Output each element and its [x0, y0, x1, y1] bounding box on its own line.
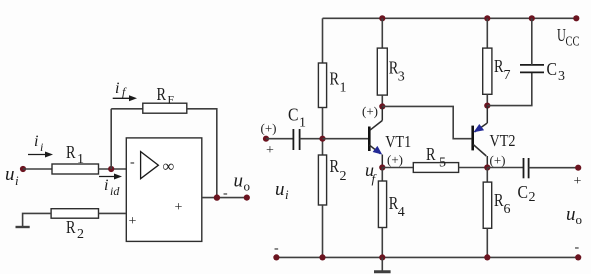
label C_2 — [518, 182, 536, 205]
svg-text:u: u — [234, 171, 244, 192]
svg-text:R: R — [494, 190, 504, 210]
wire top supply rail — [323, 17, 577, 19]
svg-text:u: u — [566, 204, 576, 225]
capacitor C3 — [520, 65, 544, 73]
svg-text:U: U — [557, 25, 566, 45]
node bottom at R4 — [379, 254, 385, 260]
svg-text:-: - — [223, 186, 228, 201]
label C_1 — [288, 105, 306, 131]
wire node to VT1 base — [323, 138, 369, 140]
svg-text:(+): (+) — [362, 104, 378, 119]
svg-text:1: 1 — [77, 152, 84, 167]
resistor R4 — [378, 168, 386, 258]
resistor R2 — [318, 155, 326, 205]
wire R2 to op-amp plus input — [99, 212, 127, 214]
resistor RF — [143, 103, 187, 113]
wire feedback vertical — [110, 109, 112, 169]
svg-text:4: 4 — [398, 205, 405, 220]
current arrow i_i — [28, 152, 53, 158]
label i_i — [34, 133, 43, 154]
label u_i — [275, 179, 289, 202]
svg-text:2: 2 — [340, 169, 347, 184]
node uo output terminal — [244, 195, 250, 201]
svg-text:(+): (+) — [490, 153, 506, 168]
wire rail down to R1 — [322, 18, 324, 63]
svg-text:i: i — [40, 140, 43, 154]
svg-text:7: 7 — [504, 68, 511, 83]
resistor R7 — [483, 48, 492, 94]
wire R2 to ground — [23, 213, 51, 227]
svg-text:CC: CC — [566, 35, 580, 50]
wire ui to R1 — [23, 168, 52, 170]
label i_id — [104, 177, 120, 198]
resistor R1 — [52, 164, 99, 174]
svg-text:C: C — [547, 59, 558, 79]
wire input to C1 — [266, 138, 293, 140]
current arrow i_id — [99, 174, 122, 180]
resistor R6 — [483, 168, 492, 258]
label R6 — [494, 190, 511, 217]
node rail right end — [573, 15, 579, 21]
wire C3 to rail — [531, 18, 533, 65]
label C_3 — [547, 59, 566, 84]
capacitor C1 — [293, 129, 299, 150]
wire R1 to input node — [322, 108, 324, 156]
wire bottom rail — [276, 256, 578, 258]
node bottom at R6 — [484, 254, 490, 260]
label R2 — [330, 156, 347, 184]
svg-text:+: + — [574, 174, 582, 189]
svg-text:2: 2 — [77, 227, 84, 242]
wire VT1 collector to VT2 base — [382, 106, 471, 138]
svg-text:1: 1 — [340, 81, 347, 96]
op-amp triangle symbol — [141, 152, 159, 179]
label u_f — [365, 160, 378, 186]
wire R1 to op-amp inverting input — [99, 168, 127, 170]
svg-text:+: + — [266, 143, 274, 158]
svg-text:i: i — [15, 173, 19, 188]
svg-text:R: R — [426, 144, 436, 164]
svg-text:-: - — [130, 155, 135, 170]
node A summing junction — [108, 166, 114, 172]
svg-text:3: 3 — [558, 69, 565, 84]
node bottom right terminal — [575, 254, 581, 260]
label R7 — [494, 56, 511, 83]
node VT1 collector — [379, 103, 385, 109]
node VT2 collector output — [484, 164, 490, 170]
svg-text:R: R — [330, 69, 340, 89]
transistor VT2 — [473, 106, 488, 168]
svg-text:R: R — [66, 142, 76, 162]
svg-text:R: R — [66, 217, 76, 237]
svg-text:∞: ∞ — [163, 157, 175, 176]
node feedback junction — [214, 194, 220, 200]
resistor R2 — [51, 209, 98, 219]
label R_F — [157, 84, 175, 107]
node base divider junction — [319, 136, 325, 142]
svg-text:R: R — [389, 193, 399, 213]
node uo output terminal — [575, 165, 581, 171]
label R1 — [330, 69, 347, 96]
wire u_f to R5 — [382, 167, 413, 169]
op-amp U1 body — [126, 138, 202, 242]
svg-text:(+): (+) — [387, 152, 403, 167]
svg-text:6: 6 — [504, 202, 511, 217]
svg-text:+: + — [175, 200, 183, 215]
svg-text:o: o — [576, 212, 583, 227]
svg-text:C: C — [518, 182, 529, 202]
wire C2 to output terminal — [529, 167, 579, 169]
node rail at C3 — [529, 15, 535, 21]
node bottom at R2 — [319, 254, 325, 260]
transistor VT1 — [369, 106, 382, 167]
svg-text:u: u — [275, 179, 285, 200]
node rail at R7 — [484, 15, 490, 21]
svg-text:R: R — [330, 156, 340, 176]
label i_f — [115, 80, 127, 99]
svg-text:R: R — [494, 56, 504, 76]
svg-text:VT1: VT1 — [385, 132, 411, 151]
resistor R3 — [377, 48, 387, 95]
wire RF to output node — [187, 109, 217, 198]
wire R2 to bottom rail — [322, 205, 324, 257]
label U_CC — [557, 25, 580, 50]
svg-text:o: o — [244, 179, 251, 194]
label u_i — [5, 164, 19, 188]
resistor R1 — [318, 63, 326, 108]
label R1 — [66, 142, 84, 167]
label R3 — [389, 58, 405, 85]
svg-text:2: 2 — [529, 190, 536, 205]
wire node A up to RF — [111, 108, 143, 110]
svg-text:i: i — [104, 177, 108, 194]
svg-text:VT2: VT2 — [490, 131, 516, 150]
svg-text:id: id — [110, 184, 120, 198]
node rail at R3 — [379, 15, 385, 21]
resistor R5 — [413, 163, 458, 173]
svg-text:+: + — [129, 214, 137, 229]
node VT2 emitter — [484, 103, 490, 109]
wire R7 to emitter node — [486, 94, 488, 105]
svg-text:(+): (+) — [261, 121, 277, 136]
ground — [374, 257, 391, 271]
svg-text:3: 3 — [398, 70, 405, 85]
svg-text:i: i — [115, 80, 119, 97]
wire output node to C2 — [487, 167, 523, 169]
label R4 — [389, 193, 405, 220]
svg-text:R: R — [157, 84, 167, 104]
node input terminal — [263, 136, 269, 142]
node u_f emitter — [379, 164, 385, 170]
node bottom left terminal — [273, 254, 279, 260]
wire R5 to output node — [459, 167, 488, 169]
svg-text:5: 5 — [439, 156, 446, 171]
wire R3 to collector node — [381, 95, 383, 106]
svg-text:i: i — [34, 133, 38, 150]
svg-text:F: F — [168, 93, 175, 107]
svg-text:1: 1 — [299, 116, 306, 131]
svg-text:-: - — [575, 240, 580, 255]
wire emitter node to C3 — [487, 72, 532, 105]
capacitor C2 — [524, 158, 529, 178]
wire rail down to R3 — [381, 18, 383, 48]
wire rail down to R7 — [486, 18, 488, 48]
svg-text:i: i — [285, 187, 289, 202]
svg-text:-: - — [274, 241, 279, 256]
label R_5 — [426, 144, 446, 171]
label u_o — [566, 204, 582, 227]
svg-text:R: R — [389, 58, 399, 78]
ground left circuit — [16, 226, 30, 228]
wire C1 to base node — [300, 138, 323, 140]
svg-text:u: u — [5, 164, 15, 185]
node ui input terminal — [20, 166, 26, 172]
wire op-amp output — [202, 197, 247, 199]
label u_o — [234, 171, 251, 194]
label R2 — [66, 217, 84, 242]
current arrow i_f — [113, 95, 137, 101]
svg-text:C: C — [288, 105, 299, 125]
